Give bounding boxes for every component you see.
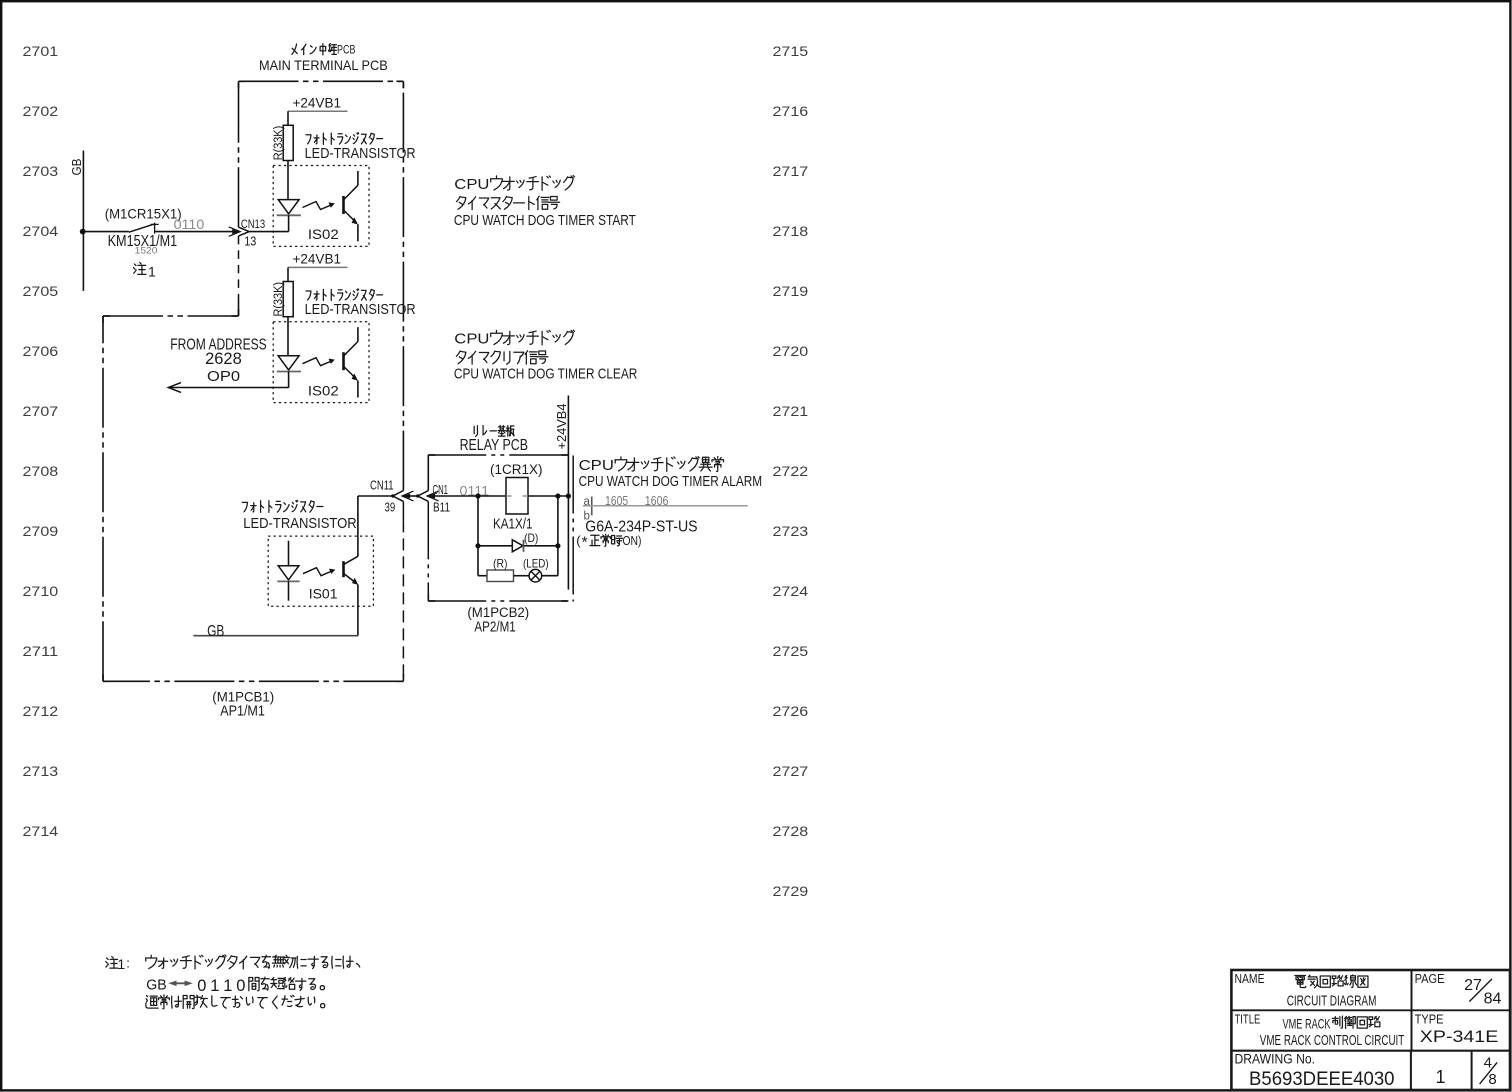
node GB junction dot: [80, 229, 86, 235]
M1PCB1 edge below CN11 (connector dashes): [402, 501, 404, 520]
IS01 photo-transistor labels: [242, 500, 323, 512]
wire between CN11 and CN1: [402, 495, 418, 497]
IS01 light squiggle: [303, 568, 332, 576]
svg-text:0: 0: [236, 977, 245, 995]
svg-text:1605: 1605: [605, 493, 628, 508]
wire CN1 to relay coil: [427, 495, 506, 497]
svg-text:2721: 2721: [773, 403, 809, 419]
svg-text:CN1: CN1: [433, 482, 449, 497]
svg-text:0110: 0110: [174, 216, 205, 232]
svg-text:2718: 2718: [773, 223, 809, 239]
resistor R(33K) of lower opto (watchdog clear): [283, 282, 293, 317]
svg-text:2715: 2715: [773, 43, 809, 59]
svg-text:CN13: CN13: [241, 217, 265, 231]
svg-text:CPU: CPU: [454, 177, 489, 193]
optocoupler IS01 dotted box: [268, 536, 373, 606]
svg-text:2729: 2729: [773, 883, 809, 899]
svg-text:(R): (R): [493, 557, 508, 571]
svg-text:CPU WATCH DOG TIMER ALARM: CPU WATCH DOG TIMER ALARM: [579, 474, 763, 490]
svg-text:2707: 2707: [23, 403, 59, 419]
svg-text:2712: 2712: [23, 703, 59, 719]
svg-text:2704: 2704: [23, 223, 59, 239]
svg-text:2716: 2716: [773, 103, 809, 119]
svg-text:(1CR1X): (1CR1X): [490, 462, 543, 477]
svg-text:*: *: [582, 535, 588, 552]
svg-text:ON): ON): [623, 533, 642, 548]
svg-text:CPU WATCH DOG TIMER START: CPU WATCH DOG TIMER START: [454, 213, 636, 229]
svg-text:2717: 2717: [773, 163, 809, 179]
svg-text:CIRCUIT DIAGRAM: CIRCUIT DIAGRAM: [1287, 993, 1377, 1010]
connector CN13 boundary chevron: [239, 227, 250, 236]
note double arrow GB <-> 0110: [172, 982, 190, 984]
svg-text:2708: 2708: [23, 463, 59, 479]
svg-text::: :: [126, 955, 130, 970]
wire switch to CN13 arrow: [155, 231, 239, 233]
OP0 output arrow: [170, 387, 289, 389]
svg-text:CN11: CN11: [370, 478, 394, 493]
svg-text:PAGE: PAGE: [1415, 971, 1445, 986]
svg-text:2710: 2710: [23, 583, 59, 599]
light arrow squiggle: [303, 202, 332, 210]
svg-text:84: 84: [1484, 991, 1502, 1008]
optocoupler IS02 dotted box: [273, 322, 369, 403]
svg-text:MAIN TERMINAL PCB: MAIN TERMINAL PCB: [259, 57, 388, 73]
wire resistor to LED: [287, 161, 289, 200]
svg-text:(D): (D): [524, 531, 538, 545]
svg-text:4: 4: [1484, 1055, 1492, 1072]
wire GB node to switch: [83, 231, 129, 233]
svg-text:IS02: IS02: [308, 382, 339, 398]
label photo-transistor (Japanese): [306, 289, 383, 301]
switch KM15X1/M1 blade: [129, 224, 154, 232]
svg-text:2725: 2725: [773, 643, 809, 659]
note 1 text block: [106, 957, 118, 969]
svg-text:DRAWING No.: DRAWING No.: [1235, 1051, 1316, 1067]
phototransistor of IS02: [357, 171, 359, 185]
svg-text:R(33K): R(33K): [273, 282, 285, 317]
svg-text:2701: 2701: [23, 43, 59, 59]
svg-text:+24VB4: +24VB4: [554, 404, 569, 450]
svg-text:(M1CR15X1): (M1CR15X1): [105, 207, 182, 223]
right branch vertical: [557, 496, 559, 576]
light arrow squiggle: [303, 358, 332, 366]
LED of IS02: [278, 356, 299, 370]
svg-text:1520: 1520: [135, 246, 158, 257]
svg-text:TYPE: TYPE: [1415, 1011, 1444, 1026]
annotation: CPU watchdog timer clear (Japanese): [491, 330, 575, 345]
node 0111 junction: [475, 493, 480, 498]
svg-text:B5693DEEE4030: B5693DEEE4030: [1249, 1068, 1395, 1090]
svg-text:GB: GB: [69, 159, 84, 176]
LED lamp symbol: [529, 569, 542, 582]
LED of IS02: [278, 200, 299, 214]
svg-text:8: 8: [1488, 1071, 1496, 1088]
svg-text:13: 13: [244, 234, 256, 249]
svg-text:2723: 2723: [773, 523, 809, 539]
svg-text:AP1/M1: AP1/M1: [220, 703, 265, 720]
svg-text:+24VB1: +24VB1: [293, 95, 342, 110]
relay coil KA1X/1: [506, 478, 528, 515]
connector CN1 boundary chevron: [418, 491, 429, 502]
annotation: CPU watchdog alarm (Japanese): [615, 457, 723, 472]
wire resistor to LED: [287, 317, 289, 356]
svg-text:XP-341E: XP-341E: [1420, 1028, 1499, 1046]
svg-text:KA1X/1: KA1X/1: [493, 515, 533, 532]
chain corner ticks: [239, 80, 246, 82]
svg-text:RELAY PCB: RELAY PCB: [460, 437, 528, 454]
svg-text:LED-TRANSISTOR: LED-TRANSISTOR: [305, 146, 416, 162]
svg-text:2713: 2713: [23, 763, 59, 779]
svg-text:CPU WATCH DOG TIMER CLEAR: CPU WATCH DOG TIMER CLEAR: [454, 367, 637, 383]
LED indicator row: [478, 575, 487, 577]
svg-text:2703: 2703: [23, 163, 59, 179]
note ref 注1: [133, 262, 145, 274]
optocoupler IS02 dotted box: [273, 166, 369, 247]
svg-text:1: 1: [210, 977, 219, 995]
svg-text:1606: 1606: [645, 493, 669, 508]
svg-text:IS01: IS01: [309, 585, 338, 601]
svg-text:IS02: IS02: [308, 226, 339, 242]
phototransistor of IS02: [357, 327, 359, 341]
+24VB4 power rail: [567, 396, 569, 590]
connector CN11 boundary chevron on M1PCB1 edge: [393, 491, 404, 502]
IS01 LED: [288, 541, 290, 566]
resistor R(33K) of upper opto (watchdog start): [283, 125, 293, 160]
svg-text:0: 0: [197, 977, 206, 995]
svg-text:2709: 2709: [23, 523, 59, 539]
svg-text:2724: 2724: [773, 583, 809, 599]
svg-text:39: 39: [385, 499, 396, 514]
MAIN TERMINAL PCB label (Japanese + English): [292, 44, 336, 55]
svg-text:1: 1: [117, 956, 125, 972]
svg-text:1: 1: [223, 977, 232, 995]
svg-text:R(33K): R(33K): [273, 126, 285, 161]
svg-text:2722: 2722: [773, 463, 809, 479]
svg-text:VME RACK: VME RACK: [1283, 1015, 1331, 1031]
svg-text:2727: 2727: [773, 763, 809, 779]
diode (D): [512, 540, 523, 552]
wire GB: [193, 635, 358, 637]
svg-text:2705: 2705: [23, 283, 59, 299]
svg-text:2702: 2702: [23, 103, 59, 119]
wire coil to +24VB4: [528, 495, 568, 497]
wire IS01 collector to CN11: [358, 495, 393, 497]
IS01 phototransistor: [357, 496, 359, 556]
left branch vertical: [477, 496, 479, 576]
svg-text:2726: 2726: [773, 703, 809, 719]
svg-text:AP2/M1: AP2/M1: [474, 619, 515, 636]
svg-text:GB: GB: [207, 623, 224, 640]
svg-text:2728: 2728: [773, 823, 809, 839]
RELAY PCB label: [474, 426, 514, 437]
svg-text:GB: GB: [146, 977, 166, 994]
MAIN TERMINAL PCB boundary chain box: [239, 80, 404, 82]
svg-text:PCB: PCB: [337, 42, 355, 56]
svg-text:TITLE: TITLE: [1235, 1011, 1261, 1026]
svg-text:CPU: CPU: [579, 458, 614, 474]
svg-text:OP0: OP0: [207, 368, 240, 385]
svg-text:2714: 2714: [23, 823, 59, 839]
chain separator right of relay box: [572, 456, 574, 602]
resistor (R): [487, 570, 514, 582]
svg-text:2628: 2628: [205, 350, 242, 368]
wire +24VB1 to resistor: [287, 267, 289, 281]
flyback diode row: [478, 545, 558, 547]
connector CN11 pin arrow (pointing left): [402, 494, 410, 499]
svg-text:LED-TRANSISTOR: LED-TRANSISTOR: [305, 302, 416, 318]
svg-text:1: 1: [1435, 1067, 1445, 1087]
svg-text:2720: 2720: [773, 343, 809, 359]
svg-text:(: (: [576, 533, 581, 548]
wire CN13 to IS02 LED: [249, 231, 288, 233]
svg-text:2719: 2719: [773, 283, 809, 299]
wire +24VB1 to resistor: [287, 111, 289, 125]
svg-text:LED-TRANSISTOR: LED-TRANSISTOR: [243, 516, 357, 532]
connector CN1 pin arrow: [427, 494, 435, 499]
svg-text:NAME: NAME: [1235, 971, 1265, 986]
svg-text:+24VB1: +24VB1: [293, 252, 342, 267]
svg-text:(LED): (LED): [523, 557, 549, 571]
svg-text:1: 1: [148, 263, 156, 279]
svg-text:VME RACK CONTROL CIRCUIT: VME RACK CONTROL CIRCUIT: [1260, 1032, 1405, 1049]
svg-text:CPU: CPU: [454, 331, 489, 347]
connector CN13 pin arrow (male): [232, 229, 240, 234]
svg-text:2711: 2711: [23, 643, 59, 659]
svg-text:B11: B11: [433, 499, 450, 514]
title block table: [1231, 970, 1510, 1090]
label photo-transistor (Japanese): [306, 133, 383, 145]
GB vertical stub: [82, 151, 84, 291]
annotation: CPU watchdog timer start (Japanese): [491, 176, 575, 191]
svg-text:2706: 2706: [23, 343, 59, 359]
RELAY PCB boundary box (two-dot chain): [428, 454, 568, 456]
